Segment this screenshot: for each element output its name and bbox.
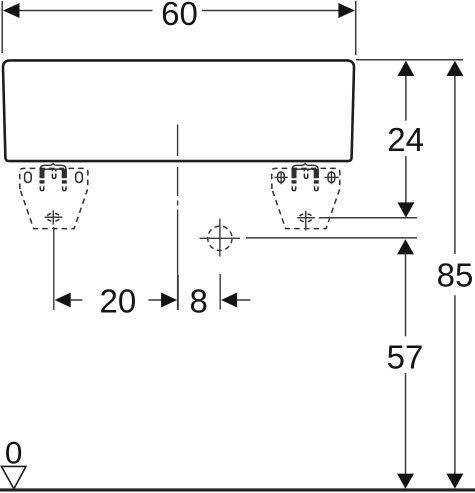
right bracket slot right (328, 172, 335, 182)
dimension 60 left extension line (1, 1, 3, 53)
dimension 57 top arrowhead (397, 239, 414, 254)
datum triangle (1, 466, 26, 488)
right bracket slot left line (274, 176, 288, 178)
left bracket clip inner band (44, 169, 63, 178)
svg-text:60: 60 (161, 0, 198, 32)
right bracket clip outer (292, 164, 318, 178)
left bracket outline (20, 168, 88, 228)
right bracket slot right v-line (330, 171, 332, 184)
dimension 85 line upper segment (454, 74, 456, 254)
svg-text:8: 8 (190, 283, 208, 320)
drain circle (208, 226, 232, 250)
svg-text:85: 85 (437, 256, 474, 293)
right bracket clip u dash gap (303, 171, 308, 173)
dimension 57 bottom arrowhead (397, 474, 414, 489)
dimension 24 top arrowhead (397, 61, 414, 76)
left bracket screw crosshair h-line (45, 216, 63, 218)
right bracket screw crosshair h-line (297, 217, 315, 219)
right bracket outline (272, 168, 340, 228)
svg-text:20: 20 (100, 283, 137, 320)
dimension 24 bottom arrowhead (397, 202, 414, 217)
dimension 8 right stub (237, 299, 251, 301)
dimension 24 line lower segment (405, 156, 407, 204)
right bracket clip middle u (304, 169, 307, 179)
dimension 24 line upper segment (405, 74, 407, 121)
dimension 57 line lower segment (405, 373, 407, 475)
left bracket clip u dash gap (51, 171, 56, 173)
right bracket slot left (278, 172, 285, 182)
right bracket slot right line (325, 176, 339, 178)
dimension 20 right arrowhead (161, 293, 177, 308)
left bracket clip middle u (52, 169, 55, 179)
dimension 85 bottom arrowhead (446, 474, 463, 489)
svg-text:0: 0 (5, 434, 23, 470)
dimension 20 left stub (70, 299, 83, 301)
left bracket clip leg ends (40, 186, 43, 190)
washbasin outline (3, 60, 354, 161)
svg-text:24: 24 (387, 121, 424, 158)
dimension 20 left extension line (53, 227, 55, 310)
floor line (0, 488, 475, 491)
dimension 60 right extension line (355, 1, 357, 55)
left bracket slot right (76, 172, 83, 182)
svg-text:57: 57 (387, 338, 424, 375)
drain crosshair v-line (219, 219, 221, 257)
right bracket clip leg fills (292, 169, 319, 184)
dimension 60 left arrowhead (3, 3, 20, 18)
right bracket clip inner band (296, 169, 315, 178)
washbasin centerline (177, 125, 179, 157)
right bracket slot left v-line (280, 171, 282, 184)
left bracket clip leg fills (40, 169, 67, 184)
reference line lower (246, 237, 417, 239)
dimension 8 right arrowhead (221, 293, 237, 308)
drain crosshair h-line (200, 237, 241, 239)
dimension 20 left arrowhead (55, 293, 71, 308)
dimension 8 left extension line (177, 275, 179, 310)
dimension 20 right segment (148, 299, 162, 301)
right bracket screw crosshair ellipse (299, 214, 313, 222)
right bracket screw crosshair v-line (305, 211, 307, 231)
dimension 57 line upper segment (405, 252, 407, 336)
right bracket clip leg ends (292, 186, 295, 190)
dimension 60 line left segment (17, 10, 153, 12)
dimension 85 top arrowhead (446, 61, 463, 76)
dimension 85 line lower segment (454, 295, 456, 475)
left bracket slot left (25, 172, 32, 182)
dimension 8 right extension line (219, 274, 221, 310)
left bracket screw crosshair ellipse (47, 213, 61, 221)
left bracket screw crosshair v-line (52, 210, 54, 224)
reference line top (356, 59, 463, 61)
dimension 60 right arrowhead (338, 3, 355, 18)
dimension 60 line right segment (202, 10, 341, 12)
left bracket clip outer (40, 164, 66, 178)
reference line mid from right screw (319, 217, 417, 219)
